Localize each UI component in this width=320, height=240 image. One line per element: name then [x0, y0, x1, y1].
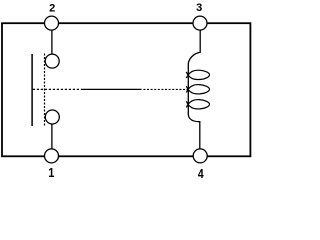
armature pole bar: [31, 54, 33, 126]
coil loop 3: [186, 100, 209, 109]
upper contact: [45, 54, 59, 68]
terminal 1: [45, 149, 59, 163]
wire terminal2 to upper contact: [51, 31, 53, 55]
lower contact: [45, 110, 59, 124]
linkage dashed segment right: [143, 88, 188, 90]
linkage solid segment: [82, 88, 142, 90]
coil stem wire from terminal 3 to terminal 4: [188, 31, 200, 149]
svg-text:2: 2: [49, 2, 55, 14]
linkage dashed segment left: [33, 88, 82, 90]
svg-text:3: 3: [196, 2, 202, 14]
wire lower contact to terminal1: [51, 124, 53, 149]
svg-text:1: 1: [48, 165, 54, 180]
terminal 2: [45, 16, 59, 30]
coil loop 2: [186, 85, 209, 94]
terminal 3: [193, 16, 207, 30]
coil loop 1: [186, 70, 209, 79]
movable contact dashed line: [44, 54, 46, 127]
wire outer rectangle loop: [2, 23, 250, 156]
terminal 4: [193, 149, 207, 163]
svg-text:4: 4: [198, 167, 204, 180]
